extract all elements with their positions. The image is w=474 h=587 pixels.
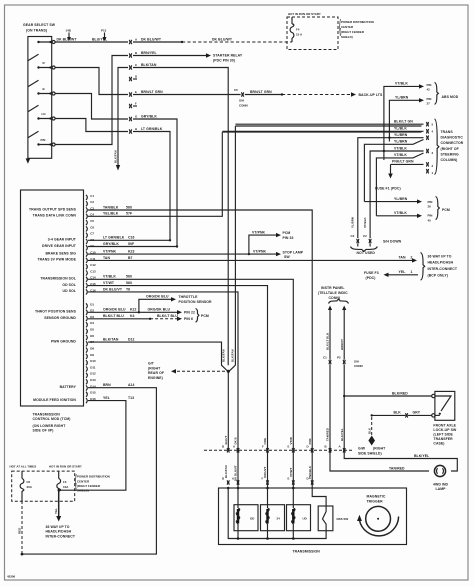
C1 conn instr panel	[323, 356, 331, 364]
svg-text:TRANS 3V PWR MODE: TRANS 3V PWR MODE	[37, 258, 76, 262]
TCM row C3 TAN/BLK to NSS vertical	[88, 205, 326, 506]
svg-text:TRANSMISSION SOL: TRANSMISSION SOL	[40, 277, 76, 281]
svg-text:PCM: PCM	[283, 231, 291, 235]
svg-text:BLK/LT BLU: BLK/LT BLU	[103, 314, 124, 318]
svg-text:(BCP ONLY): (BCP ONLY)	[428, 274, 448, 278]
svg-text:INTER-CONNECT: INTER-CONNECT	[428, 267, 458, 271]
PDC label text	[340, 19, 374, 39]
front axle lock-up switch box	[432, 391, 457, 445]
svg-text:CONTROL MOD (TCM): CONTROL MOD (TCM)	[33, 417, 71, 421]
svg-text:50F: 50F	[128, 242, 134, 246]
svg-text:BLK/T: BLK/T	[224, 436, 228, 445]
PCM brace for pins 22/6	[196, 309, 209, 323]
svg-text:UD SOL: UD SOL	[63, 289, 76, 293]
svg-text:ABS MOD: ABS MOD	[442, 95, 459, 99]
wire H right side LT GRN/BLK down to TCM C8	[133, 127, 170, 241]
svg-text:F8: F8	[27, 480, 31, 484]
TCM name text below box	[33, 412, 71, 432]
svg-text:BLK/TAN: BLK/TAN	[231, 349, 235, 362]
svg-text:D10: D10	[90, 359, 96, 363]
svg-text:CENTER: CENTER	[341, 25, 354, 29]
svg-text:BLK: BLK	[367, 427, 371, 434]
svg-text:YL/BRN: YL/BRN	[350, 217, 354, 228]
svg-text:BLK/TAN: BLK/TAN	[221, 349, 225, 362]
svg-text:15 A: 15 A	[296, 33, 303, 37]
svg-text:C5: C5	[234, 88, 238, 92]
svg-text:(ON LOWER RIGHT: (ON LOWER RIGHT	[33, 424, 67, 428]
svg-text:SHIELD): SHIELD)	[77, 489, 89, 493]
svg-text:DK BLU/WT: DK BLU/WT	[57, 37, 78, 41]
svg-text:D12: D12	[90, 372, 96, 376]
svg-text:PIN: PIN	[427, 97, 432, 101]
svg-text:SIDE SHIELD): SIDE SHIELD)	[358, 452, 382, 456]
wire A right side to PDC (solid then dashed)	[133, 37, 292, 43]
svg-text:G/T: G/T	[148, 362, 155, 366]
svg-text:VT/BLK: VT/BLK	[103, 275, 116, 279]
svg-text:BLK/TAN: BLK/TAN	[113, 150, 117, 163]
TCM row C14 VT/BLK to solenoid 3	[88, 275, 293, 488]
svg-text:(LEFT SIDE: (LEFT SIDE	[433, 433, 453, 437]
svg-text:INSTR PANEL: INSTR PANEL	[321, 286, 345, 290]
diag row3 YL/BRN to C3 shdown conn	[358, 133, 429, 238]
svg-text:COLUMN): COLUMN)	[441, 158, 458, 162]
svg-text:24: 24	[277, 517, 281, 521]
svg-text:C2: C2	[363, 234, 367, 238]
svg-text:B: B	[222, 477, 224, 481]
magnetic trigger	[357, 494, 399, 536]
svg-text:LT GRN/BLK: LT GRN/BLK	[103, 236, 125, 240]
svg-text:SIDE OF I/P): SIDE OF I/P)	[33, 429, 54, 433]
svg-text:THROT POSITION SENS: THROT POSITION SENS	[35, 310, 77, 314]
svg-text:D: D	[307, 477, 309, 481]
C2 shdown connector	[363, 234, 402, 247]
svg-text:BRN/LT GRN: BRN/LT GRN	[250, 90, 272, 94]
solenoid return bus	[228, 488, 326, 540]
svg-text:C7: C7	[90, 232, 94, 236]
P2 conn instr panel	[337, 356, 363, 368]
svg-text:S/H: S/H	[354, 359, 359, 363]
svg-text:(PDC PIN 30): (PDC PIN 30)	[213, 59, 235, 63]
svg-text:ORG/DK BLU: ORG/DK BLU	[146, 295, 169, 299]
svg-text:C3: C3	[351, 234, 355, 238]
svg-text:ORG/DK BLU: ORG/DK BLU	[103, 308, 126, 312]
svg-text:57F: 57F	[126, 212, 132, 216]
svg-text:BLK/LT BLU: BLK/LT BLU	[326, 333, 330, 350]
TCM pin brackets C1-C16	[86, 195, 87, 403]
svg-text:E: E	[135, 90, 137, 94]
svg-text:PIN 33: PIN 33	[283, 236, 294, 240]
diag row7 PNK/LT GRN with fuse F1 stub pin2	[375, 160, 434, 191]
4WD IND LAMP	[433, 465, 449, 491]
svg-text:K23: K23	[128, 250, 135, 254]
solenoid 1 OD	[234, 488, 258, 539]
diag connector brace and label	[435, 119, 464, 174]
diag row8 pin 1 unused	[426, 169, 433, 175]
rotated wire color labels below conn row	[224, 465, 312, 481]
splice arrow 2 on wire A	[101, 29, 107, 42]
svg-text:26: 26	[428, 205, 432, 209]
svg-text:CONN: CONN	[354, 364, 363, 368]
svg-text:POWER DISTRIBUTION: POWER DISTRIBUTION	[77, 475, 110, 479]
svg-text:B7: B7	[128, 256, 133, 260]
switch blade row 3 (B)	[28, 80, 45, 95]
svg-text:POSITION SENSOR: POSITION SENSOR	[179, 300, 213, 304]
svg-text:VT/BLK: VT/BLK	[394, 211, 407, 215]
svg-text:D6: D6	[90, 334, 94, 338]
svg-text:E: E	[288, 477, 290, 481]
diag row1 ground pin5	[235, 120, 433, 127]
svg-text:PNK/LT GRN: PNK/LT GRN	[392, 160, 414, 164]
svg-text:S/H DOWN: S/H DOWN	[383, 239, 402, 243]
svg-text:BLK/YEL: BLK/YEL	[414, 454, 429, 458]
svg-text:TRANSMISSION: TRANSMISSION	[33, 412, 61, 416]
wire DK BLU/WT switch to conn pin A	[55, 37, 128, 42]
YEL wire from F3 down to 36way arrow	[46, 489, 76, 539]
svg-text:D12: D12	[128, 338, 135, 342]
svg-text:PIN 22: PIN 22	[184, 311, 195, 315]
svg-text:560: 560	[126, 275, 132, 279]
svg-text:C1: C1	[323, 356, 327, 360]
svg-text:LOCK-UP SW: LOCK-UP SW	[433, 428, 457, 432]
svg-text:DK B: DK B	[234, 437, 238, 444]
BLK GRY wire with inline conn to switch	[371, 411, 432, 418]
svg-text:BLK/RED: BLK/RED	[392, 391, 408, 395]
bottom PDC dashed box	[10, 465, 82, 502]
svg-text:TAN: TAN	[399, 256, 406, 260]
ABS MOD pin labels and brace	[427, 83, 459, 106]
svg-text:36 WAY I/P TO: 36 WAY I/P TO	[428, 254, 452, 258]
svg-text:D13: D13	[90, 378, 96, 382]
svg-text:RED: RED	[18, 528, 22, 534]
svg-text:10A: 10A	[63, 485, 69, 489]
BLK/RED wire to front axle switch	[344, 391, 432, 396]
C3 shdown connector	[351, 234, 360, 247]
svg-text:BRN/YEL: BRN/YEL	[141, 51, 157, 55]
svg-text:D11: D11	[90, 365, 96, 369]
rotated wire color labels above conn row	[224, 436, 312, 445]
svg-text:TRANS: TRANS	[441, 130, 454, 134]
svg-text:ORG/DK BLU: ORG/DK BLU	[148, 308, 171, 312]
not used brace	[351, 247, 378, 256]
svg-text:VT/PNK: VT/PNK	[252, 230, 266, 234]
svg-text:VT/WT: VT/WT	[103, 281, 115, 285]
svg-text:T6: T6	[126, 287, 130, 291]
diag row4 YL/BRN to PCM pin26 with diagonal	[364, 140, 423, 202]
svg-text:B: B	[135, 51, 137, 55]
TCM row C10 VT/PNK with stop lamp sw and PCM pin33 arrows	[88, 230, 304, 259]
svg-text:ORG/VT: ORG/VT	[263, 467, 267, 478]
TCM left labels	[29, 207, 77, 402]
svg-text:VT/W: VT/W	[289, 437, 293, 445]
svg-text:D8: D8	[90, 347, 94, 351]
PDC top-right dashed box	[287, 12, 338, 49]
transmission box	[219, 488, 407, 545]
TCM row D14 BRN battery feed down to red splice	[23, 383, 156, 554]
TCM row C16 DK BLU/VT to solenoid 1	[88, 287, 238, 488]
TCM row D16 YEL ignition feed to fuse F3	[60, 396, 134, 490]
svg-text:(TELLTALE INDIC: (TELLTALE INDIC	[318, 291, 348, 295]
svg-text:YEL: YEL	[103, 396, 110, 400]
svg-text:CONNECTOR: CONNECTOR	[441, 141, 464, 145]
svg-text:DK BLU/WT: DK BLU/WT	[141, 37, 162, 41]
svg-text:VT/BLK: VT/BLK	[394, 146, 407, 150]
svg-text:45: 45	[428, 218, 432, 222]
svg-text:B: B	[43, 87, 45, 91]
svg-text:F4: F4	[296, 28, 300, 32]
pin F stub	[133, 105, 137, 107]
svg-text:HOT IN RUN OR START: HOT IN RUN OR START	[49, 465, 82, 469]
svg-text:TAN/RED: TAN/RED	[389, 466, 405, 470]
svg-text:STARTER RELAY: STARTER RELAY	[213, 54, 243, 58]
TCM pin id labels	[90, 194, 96, 401]
svg-text:(RIGHT: (RIGHT	[373, 447, 386, 451]
svg-text:VT/BLK: VT/BLK	[394, 153, 407, 157]
svg-text:K22: K22	[130, 308, 137, 312]
svg-text:S/H: S/H	[239, 99, 244, 103]
svg-text:GRY/BLK: GRY/BLK	[103, 242, 119, 246]
svg-text:14B: 14B	[66, 29, 71, 33]
switch pin squares and circles	[50, 41, 55, 147]
svg-text:P2: P2	[337, 356, 341, 360]
dashed inline connector row over transmission wires	[204, 444, 352, 452]
svg-text:OD: OD	[250, 517, 254, 521]
svg-text:(RIGHT FENDER: (RIGHT FENDER	[77, 484, 101, 488]
svg-text:VT/BLK: VT/BLK	[395, 82, 408, 86]
svg-text:YL/BRN: YL/BRN	[394, 140, 408, 144]
switch blade row 2 (R)	[28, 54, 46, 69]
svg-text:BLK/TAN: BLK/TAN	[103, 338, 119, 342]
connector column C101 pins A-H	[129, 40, 132, 134]
svg-text:VT/PNK: VT/PNK	[253, 249, 267, 253]
svg-text:PNK: PNK	[308, 437, 312, 444]
RED dashed wire from F8 to splice	[18, 491, 24, 555]
svg-text:LAMP: LAMP	[436, 487, 447, 491]
svg-text:FRONT AXLE: FRONT AXLE	[433, 423, 456, 427]
diag feed row1 ground wire down to junction	[235, 126, 421, 365]
gear select switch label	[23, 23, 56, 33]
svg-text:G/W: G/W	[358, 447, 366, 451]
svg-text:INTER-CONNECT: INTER-CONNECT	[46, 534, 76, 538]
svg-text:TAN/BLK: TAN/BLK	[103, 205, 119, 209]
ground G/W right side shield	[358, 417, 386, 456]
svg-text:27: 27	[427, 102, 431, 106]
svg-text:POWER DISTRIBUTION: POWER DISTRIBUTION	[341, 20, 374, 24]
svg-text:BLK/LT GN: BLK/LT GN	[394, 120, 413, 124]
svg-text:BLK/LT BLU: BLK/LT BLU	[157, 314, 178, 318]
svg-text:BRN: BRN	[103, 383, 111, 387]
wire switch row 2 to pin E	[55, 68, 128, 95]
svg-text:BRAKE SENS SIG: BRAKE SENS SIG	[45, 251, 76, 255]
svg-text:560: 560	[126, 281, 132, 285]
solenoid 3 UD	[287, 488, 311, 539]
svg-text:(RIGHT OF: (RIGHT OF	[441, 147, 459, 151]
TCM row C9 GRY/BLK	[88, 242, 178, 248]
svg-text:CENTER: CENTER	[77, 479, 90, 483]
svg-text:ORG: ORG	[263, 437, 267, 444]
wire C right side BLK/TAN going down	[133, 63, 228, 365]
svg-text:C5: C5	[90, 219, 94, 223]
diag feed row2 from C4	[222, 131, 421, 133]
svg-text:PWR GROUND: PWR GROUND	[51, 339, 76, 343]
svg-text:BLK/TAN: BLK/TAN	[224, 465, 228, 478]
svg-text:TRANSFER: TRANSFER	[433, 437, 453, 441]
wire switch row 4 to pin H	[55, 119, 128, 132]
svg-text:H: H	[135, 127, 137, 131]
svg-text:YL/BRN: YL/BRN	[394, 133, 408, 137]
diag row6 VT/BLK to PCM pin45 with diagonal	[376, 153, 423, 216]
svg-text:TAN: TAN	[103, 256, 110, 260]
ground junction G/T with dashed lead	[148, 349, 235, 450]
TCM row D7 BLK/TAN pwr ground	[88, 338, 227, 371]
svg-text:FUSE F1 (PDC): FUSE F1 (PDC)	[375, 187, 401, 191]
svg-text:D5: D5	[90, 328, 94, 332]
wire switch row 3 to pin G	[55, 94, 128, 120]
svg-text:HEADLP/DASH: HEADLP/DASH	[46, 530, 72, 534]
svg-text:TRANSMISSION: TRANSMISSION	[293, 549, 321, 553]
PCM brace right	[436, 197, 450, 220]
svg-text:GEAR SELECT SW: GEAR SELECT SW	[23, 23, 56, 27]
svg-text:NSS SW: NSS SW	[337, 517, 349, 521]
svg-text:VT/PNK: VT/PNK	[103, 250, 117, 254]
TCM row C11 TAN to 36-way arrow	[88, 256, 417, 263]
junction dots at transmission box top	[227, 487, 295, 490]
svg-text:SW: SW	[284, 255, 290, 259]
svg-text:DK BLU/VT: DK BLU/VT	[234, 465, 238, 481]
TCM row C4 YEL/BLK up to diag row2	[88, 132, 222, 216]
svg-text:YL/BRN: YL/BRN	[394, 197, 408, 201]
svg-text:DK BLU/VT: DK BLU/VT	[103, 287, 123, 291]
fuse F8	[20, 471, 33, 501]
bottom PDC label	[75, 474, 109, 493]
36-way YEL fuse F3 arrow row	[364, 270, 418, 280]
svg-text:P13: P13	[101, 29, 107, 33]
svg-text:STOP LAMP: STOP LAMP	[283, 250, 304, 254]
svg-text:VT/BLK: VT/BLK	[363, 217, 367, 228]
fuse F4	[290, 17, 303, 42]
TCM row C15 VT/WT to solenoid 2	[88, 281, 268, 488]
svg-text:BRN/VT: BRN/VT	[340, 339, 344, 350]
svg-text:CASE): CASE)	[433, 442, 444, 446]
wire C1 conn down to lamp left	[326, 365, 429, 472]
svg-text:GRY: GRY	[413, 411, 421, 415]
instr panel arrow wire 1	[326, 306, 332, 360]
gear select switch ground arrow	[26, 158, 31, 163]
svg-text:30A: 30A	[27, 485, 33, 489]
svg-text:D9: D9	[90, 353, 94, 357]
conn pins on instr wires	[325, 444, 346, 452]
svg-text:560: 560	[126, 205, 132, 209]
svg-text:BLK: BLK	[394, 411, 402, 415]
svg-text:MAGNETIC: MAGNETIC	[367, 494, 386, 498]
switch row contact wires	[39, 42, 52, 145]
svg-text:SHIELD): SHIELD)	[341, 35, 353, 39]
solenoid 2	[261, 488, 285, 539]
instr panel arrow wire 2	[340, 306, 346, 360]
svg-text:PIN: PIN	[428, 200, 433, 204]
svg-text:C13: C13	[90, 269, 96, 273]
svg-text:YL/BLK: YL/BLK	[394, 127, 407, 131]
svg-text:BLK/TAN: BLK/TAN	[141, 63, 157, 67]
switch blade row 5 (P/N)	[28, 131, 46, 146]
svg-text:A14: A14	[128, 383, 135, 387]
svg-text:DRIVE GEAR INPUT: DRIVE GEAR INPUT	[42, 244, 77, 248]
svg-text:ENGINE): ENGINE)	[148, 376, 163, 380]
svg-text:D4: D4	[90, 321, 94, 325]
wire G right side GRY/BLK down to TCM C9	[133, 114, 177, 246]
svg-text:1: 1	[411, 270, 413, 274]
ABS MOD wire YL/BRN	[389, 96, 424, 142]
svg-text:TRIGGER: TRIGGER	[367, 499, 384, 503]
svg-text:YEL: YEL	[399, 270, 406, 274]
TCM row C8 LT GRN/BLK	[88, 236, 171, 242]
wire E right side with C5 connector and backup lts	[133, 88, 383, 108]
svg-text:D: D	[135, 74, 137, 78]
ABS MOD wire VT/BLK	[384, 82, 424, 160]
svg-text:F: F	[262, 477, 264, 481]
svg-text:3-4 GEAR INPUT: 3-4 GEAR INPUT	[48, 238, 77, 242]
TCM row D3 BLK/LT BLU dashed to PCM pin6	[88, 314, 193, 321]
diag row5 VT/BLK to C2 shdown conn pin3	[370, 146, 433, 238]
svg-text:YEL/BLK: YEL/BLK	[103, 212, 119, 216]
svg-text:MODULE FEED IGNITION: MODULE FEED IGNITION	[33, 398, 76, 402]
wire pin C left side to down arrow BLK/TAN	[113, 68, 128, 171]
svg-text:NOT USED: NOT USED	[357, 251, 376, 255]
svg-text:PIN: PIN	[427, 83, 432, 87]
svg-text:GRY/BLK: GRY/BLK	[141, 114, 157, 118]
svg-text:TAN/RED: TAN/RED	[326, 428, 330, 441]
svg-text:D1: D1	[90, 302, 94, 306]
svg-text:STEERING: STEERING	[441, 152, 459, 156]
svg-text:(RIGHT: (RIGHT	[148, 366, 161, 370]
PCM pin 26 arrow	[350, 197, 432, 228]
svg-text:LO: LO	[42, 112, 47, 116]
svg-text:C2: C2	[90, 200, 94, 204]
svg-text:BLK/YEL: BLK/YEL	[340, 428, 344, 441]
svg-text:THROTTLE: THROTTLE	[179, 295, 199, 299]
svg-text:C12: C12	[90, 263, 96, 267]
svg-text:REAR OF: REAR OF	[148, 371, 164, 375]
svg-text:C16: C16	[128, 236, 135, 240]
svg-text:(PDC): (PDC)	[366, 276, 376, 280]
svg-text:BRN/LT GRN: BRN/LT GRN	[141, 90, 163, 94]
svg-text:45306: 45306	[7, 575, 16, 579]
diag row2 from C4 pin4	[222, 127, 433, 134]
svg-text:DK BLU/WT: DK BLU/WT	[212, 37, 233, 41]
svg-text:36 WAY I/P TO: 36 WAY I/P TO	[46, 525, 70, 529]
svg-text:VT/WT: VT/WT	[289, 468, 293, 477]
svg-text:F3: F3	[63, 480, 67, 484]
svg-text:B: B	[325, 444, 327, 448]
svg-text:SENSOR GROUND: SENSOR GROUND	[44, 316, 76, 320]
svg-text:BACK-UP LTS: BACK-UP LTS	[359, 93, 383, 97]
PCM pin 45 arrow	[363, 211, 432, 228]
svg-text:OD SOL: OD SOL	[62, 283, 76, 287]
wire pin B to switch row 5 (BRN/YEL)	[55, 56, 128, 145]
NSS switch	[318, 506, 348, 531]
svg-text:CONN: CONN	[239, 104, 248, 108]
svg-text:HOT IN RUN OR START: HOT IN RUN OR START	[288, 12, 321, 16]
svg-text:C1: C1	[90, 194, 94, 198]
switch blade row 4 (LO)	[28, 105, 46, 120]
svg-text:HOT AT ALL TIMES: HOT AT ALL TIMES	[10, 465, 37, 469]
svg-text:PIN 6: PIN 6	[184, 317, 193, 321]
svg-text:C6: C6	[90, 225, 94, 229]
svg-text:T13: T13	[128, 396, 134, 400]
svg-text:YL/BRN: YL/BRN	[395, 96, 409, 100]
svg-text:TRANS DATA LINK CONN: TRANS DATA LINK CONN	[33, 214, 77, 218]
svg-text:HEADLP/DASH: HEADLP/DASH	[428, 261, 454, 265]
svg-text:UD: UD	[303, 517, 307, 521]
